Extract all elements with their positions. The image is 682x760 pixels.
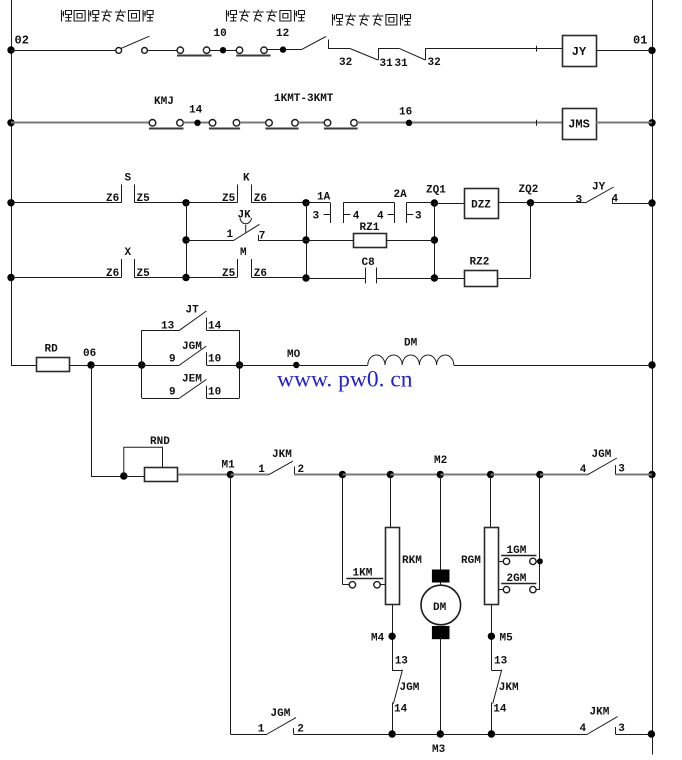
- inductor DM coil: [368, 355, 454, 365]
- wire 2GM to C5 column: [536, 589, 540, 591]
- node A3 junction dot: [182, 274, 189, 281]
- svg-text:M1: M1: [222, 460, 236, 472]
- svg-text:RND: RND: [150, 436, 170, 448]
- svg-text:JT: JT: [186, 305, 200, 317]
- svg-text:JKM: JKM: [590, 707, 610, 719]
- wire RZ2 to ZQ2 column: [497, 278, 531, 280]
- switch JK manual actuator arc: [240, 218, 252, 233]
- wire node A2 to JK: [186, 240, 234, 242]
- svg-text:DM: DM: [433, 602, 447, 614]
- wire K to node B: [252, 202, 306, 204]
- wire 06 column elbow: [91, 476, 124, 478]
- contact 1GM bridge bar: [501, 555, 536, 557]
- svg-text:9: 9: [169, 354, 176, 366]
- svg-text:www. pw0. cn: www. pw0. cn: [277, 367, 413, 393]
- wire node A column: [186, 203, 188, 278]
- svg-text:1KM: 1KM: [353, 568, 373, 580]
- wire JT branch left: [142, 330, 180, 332]
- wire DZZ to node ZQ2: [498, 202, 531, 204]
- wire M1 column elbow: [230, 734, 267, 736]
- svg-text:1: 1: [227, 229, 234, 241]
- label 机房安全回路 (machine-room safety circuit): [333, 14, 411, 26]
- contact S left plate: [121, 185, 123, 203]
- svg-text:1: 1: [258, 724, 265, 736]
- contact 2A right plate: [406, 203, 408, 223]
- wire row2 left segment: [11, 122, 149, 124]
- wire 1GM to C5 column: [536, 561, 540, 563]
- contact K31a blade: [350, 48, 378, 60]
- wire RND bypass: [124, 447, 163, 476]
- wire node A to contact K: [186, 202, 237, 204]
- terminal tick row2: [536, 120, 538, 126]
- resistor RND box: [145, 468, 178, 482]
- svg-text:16: 16: [399, 107, 412, 119]
- wire row4 left segment: [11, 277, 122, 279]
- contact pair KMT2 bridge bar: [265, 128, 298, 130]
- svg-text:06: 06: [83, 348, 96, 360]
- wire RGM to 2GM stub: [499, 589, 504, 591]
- svg-text:14: 14: [189, 105, 203, 117]
- contact 1GM left circle: [503, 558, 509, 564]
- contact JT terminal post: [206, 318, 208, 331]
- svg-text:13: 13: [494, 656, 508, 668]
- svg-text:DM: DM: [404, 338, 418, 350]
- svg-text:4: 4: [580, 723, 587, 735]
- svg-text:JY: JY: [592, 182, 606, 194]
- wire JEM branch left: [142, 398, 180, 400]
- switch JK blade: [234, 224, 260, 240]
- node dot right bus M1 row: [648, 471, 655, 478]
- wire row1 segment 4: [267, 49, 301, 51]
- node M1 dot: [227, 471, 234, 478]
- contact 2A terminal 4 stub: [388, 214, 395, 216]
- wire column C1 riser: [342, 475, 344, 585]
- rectifier DZZ box: [465, 189, 499, 219]
- node D1 junction dot: [388, 730, 395, 737]
- node branch-right junction dot: [236, 361, 243, 368]
- svg-text:KMJ: KMJ: [154, 96, 174, 108]
- svg-text:Z6: Z6: [106, 193, 119, 205]
- svg-text:14: 14: [394, 704, 408, 716]
- svg-text:10: 10: [208, 387, 221, 399]
- wire node ZQ1 column: [434, 203, 436, 278]
- wire JGM branch segments: [142, 365, 180, 367]
- wire RND lead left: [124, 476, 145, 478]
- svg-text:C8: C8: [362, 257, 376, 269]
- wire left bus to fuse RD: [11, 365, 37, 367]
- wire RKM to node M4: [392, 605, 394, 671]
- node M2 dot: [437, 471, 444, 478]
- wire JKM bottom to right bus: [615, 734, 651, 736]
- svg-text:4: 4: [377, 210, 384, 222]
- contact pair KMT2 left circle: [266, 120, 273, 127]
- wire S to node A: [134, 202, 186, 204]
- wire DM motor to bottom row: [440, 637, 442, 734]
- capacitor C8 left plate: [365, 268, 367, 284]
- node 12 dot: [280, 46, 286, 52]
- svg-text:3: 3: [415, 210, 422, 222]
- wire D3 to contact JKM bottom: [491, 734, 587, 736]
- wire row1 to JY coil: [425, 48, 562, 50]
- wire RD to node 06: [70, 365, 92, 367]
- contact X left plate: [121, 259, 123, 278]
- wire RZ1 to ZQ1 column: [386, 240, 434, 242]
- contact pair P1 bridge bar: [177, 55, 212, 57]
- svg-text:1: 1: [258, 464, 265, 476]
- svg-text:ZQ2: ZQ2: [519, 184, 539, 196]
- contact JY blade: [585, 187, 614, 203]
- node 10 dot: [220, 47, 226, 53]
- motor DM brush bottom: [432, 626, 450, 639]
- contact pair P1 right circle: [203, 47, 209, 53]
- node D3 junction dot: [488, 730, 495, 737]
- svg-text:M: M: [240, 247, 247, 259]
- svg-text:1KMT-3KMT: 1KMT-3KMT: [274, 93, 334, 105]
- contact pair KMT3 bridge bar: [324, 128, 358, 130]
- svg-text:9: 9: [169, 387, 176, 399]
- contact JEM terminal post: [206, 386, 208, 398]
- node dot right bus bottom row: [648, 730, 655, 737]
- wire node 06 to branch: [91, 365, 142, 367]
- wire JMS to right bus: [596, 122, 652, 124]
- wire DM coil to right bus: [454, 365, 652, 367]
- wire M2 column riser: [440, 475, 442, 586]
- contact pair P2 right circle: [261, 47, 267, 53]
- svg-text:3: 3: [618, 723, 625, 735]
- node C5-1GM junction dot: [537, 558, 543, 564]
- node dot left bus row2: [7, 119, 14, 126]
- svg-text:1GM: 1GM: [507, 545, 527, 557]
- contact JKM blade (M1 row): [269, 461, 293, 475]
- node ZQ1-2 junction dot: [431, 236, 438, 243]
- wire JKM column to bottom row: [491, 703, 493, 735]
- wire node B3 to C8: [306, 278, 366, 280]
- svg-text:M4: M4: [371, 633, 385, 645]
- contact 32-31 lead tick: [328, 40, 330, 49]
- node C1 junction dot: [339, 471, 346, 478]
- contact pair KMJ left circle: [149, 120, 156, 127]
- wire node A3 to contact M: [186, 277, 237, 279]
- svg-text:RGM: RGM: [461, 555, 481, 567]
- svg-text:RKM: RKM: [402, 555, 422, 567]
- contact pair P2 bridge bar: [236, 55, 270, 57]
- svg-text:4: 4: [353, 210, 360, 222]
- resistor RKM box: [386, 528, 400, 605]
- svg-text:MO: MO: [287, 349, 301, 361]
- contact 2A terminal 3 stub: [406, 214, 413, 216]
- wire RND to node M1: [178, 474, 231, 476]
- contact 1A right plate: [343, 203, 345, 223]
- node A junction dot: [182, 199, 189, 206]
- svg-text:X: X: [125, 247, 132, 259]
- svg-text:DZZ: DZZ: [471, 200, 491, 212]
- node dot right bus row2: [648, 119, 655, 126]
- svg-text:Z6: Z6: [254, 193, 267, 205]
- contact 2GM bridge bar: [501, 583, 536, 585]
- svg-text:2: 2: [297, 724, 304, 736]
- wire row2 segment 3: [240, 122, 266, 124]
- node dot right bus row3: [648, 199, 655, 206]
- contact K31b blade: [399, 48, 425, 60]
- node M4 dot: [388, 633, 395, 640]
- contact JGM blade (bottom): [267, 718, 296, 734]
- svg-text:JKM: JKM: [499, 682, 519, 694]
- contact K31b terminal post: [425, 48, 427, 60]
- node RND-left junction dot: [120, 472, 127, 479]
- svg-text:31: 31: [395, 58, 409, 70]
- contact 1A terminal 4 stub: [343, 214, 350, 216]
- contact JKM column blade: [493, 670, 502, 704]
- wire ZQ1 to DZZ: [434, 203, 464, 205]
- contact JT blade: [180, 311, 207, 330]
- node A2 junction dot: [182, 236, 189, 243]
- wire C4 to C5: [491, 474, 540, 476]
- contact 2GM left circle: [503, 586, 509, 592]
- wire right bus vertical: [652, 0, 654, 755]
- svg-text:Z5: Z5: [222, 268, 236, 280]
- svg-text:12: 12: [276, 28, 289, 40]
- wire RGM to node M5: [491, 605, 493, 671]
- wire node B to contact 1A: [306, 202, 330, 204]
- contact pair KMT3 right circle: [351, 120, 358, 127]
- svg-text:4: 4: [580, 464, 587, 476]
- wire 2A to node ZQ1: [406, 202, 434, 204]
- svg-text:Z5: Z5: [137, 193, 151, 205]
- svg-text:1A: 1A: [317, 191, 331, 203]
- wire C4 riser to RGM: [490, 475, 492, 528]
- node branch-left junction dot: [138, 361, 145, 368]
- svg-text:M2: M2: [434, 455, 447, 467]
- contact JKM column tick: [491, 670, 501, 672]
- wire C2 to M2: [390, 474, 440, 476]
- svg-text:S: S: [125, 173, 132, 185]
- switch S1 blade: [121, 36, 149, 48]
- contact 2GM right circle: [530, 586, 536, 592]
- wire JGM bottom to node D1: [294, 734, 393, 736]
- contact pair KMT1 bridge bar: [209, 128, 240, 130]
- wire C1 elbow to 1KM: [343, 584, 350, 586]
- wire row1 left segment: [11, 50, 116, 52]
- contact JKM blade (bottom): [588, 717, 618, 734]
- motor DM brush top: [432, 570, 450, 583]
- svg-text:13: 13: [161, 320, 175, 332]
- contact M right plate: [251, 259, 253, 278]
- svg-text:31: 31: [380, 58, 394, 70]
- contact 1KM bridge bar: [346, 578, 383, 580]
- wire JGM to right bus: [616, 474, 652, 476]
- svg-text:RD: RD: [45, 344, 59, 356]
- svg-text:JEM: JEM: [182, 374, 202, 386]
- svg-text:10: 10: [214, 28, 227, 40]
- wire contact chain segment b: [378, 48, 399, 50]
- contact JGM blade (M1 row right): [588, 458, 617, 475]
- wire JY contact to right bus: [612, 203, 652, 205]
- svg-text:JMS: JMS: [568, 118, 590, 132]
- wire JGM column to bottom row: [392, 703, 394, 735]
- node M5 dot: [488, 633, 495, 640]
- contact X right plate: [134, 259, 136, 278]
- contact JGM column blade: [393, 670, 402, 704]
- wire ZQ2 column: [530, 203, 532, 278]
- contact 1A left plate: [330, 203, 332, 223]
- contact JEM blade: [180, 379, 207, 398]
- svg-text:02: 02: [15, 34, 29, 48]
- svg-text:JK: JK: [238, 210, 252, 222]
- contact pair KMJ right circle: [177, 120, 184, 127]
- contact JGM terminal post: [206, 352, 208, 365]
- wire M2 to C4: [440, 474, 490, 476]
- svg-text:K: K: [243, 173, 250, 185]
- svg-text:2GM: 2GM: [507, 573, 527, 585]
- svg-text:RZ1: RZ1: [360, 222, 380, 234]
- svg-text:JKM: JKM: [272, 449, 292, 461]
- wire M to node B3: [252, 277, 306, 279]
- node dot right bus row5: [648, 361, 655, 368]
- svg-text:Z5: Z5: [222, 193, 236, 205]
- wire X to node A3: [134, 277, 186, 279]
- node 16 dot: [406, 120, 412, 126]
- wire row2 segment 4: [298, 122, 324, 124]
- contact M left plate: [237, 259, 239, 278]
- node 01 junction dot: [648, 47, 655, 54]
- wire row1 segment 2: [147, 50, 177, 52]
- svg-text:ZQ1: ZQ1: [426, 184, 446, 196]
- wire MO to inductor DM: [296, 365, 368, 367]
- relay coil JMS box: [563, 109, 597, 140]
- svg-text:RZ2: RZ2: [470, 256, 490, 268]
- svg-text:10: 10: [208, 354, 221, 366]
- node B junction dot: [302, 199, 309, 206]
- wire bridge 1A-2A: [343, 202, 394, 204]
- wire JKM to node C1: [294, 474, 343, 476]
- contact pair P1 left circle: [177, 47, 183, 53]
- wire D1 to node M3: [392, 734, 440, 736]
- svg-text:32: 32: [428, 57, 441, 69]
- contact JY terminal post: [612, 198, 614, 203]
- terminal tick row1: [536, 46, 538, 52]
- wire branch to node MO: [240, 365, 297, 367]
- contact S right plate: [134, 185, 136, 203]
- node C2 junction dot: [387, 471, 394, 478]
- wire node B column: [306, 203, 308, 278]
- wire row1 segment 3: [210, 50, 237, 52]
- resistor RGM box: [485, 528, 499, 605]
- contact 1KM right circle: [374, 582, 380, 588]
- wire row2 to JMS coil: [357, 122, 562, 124]
- wire left bus vertical: [11, 0, 13, 366]
- wire node B2 to RZ1: [306, 240, 354, 242]
- motor DM circle: [421, 585, 461, 625]
- wire JK to node B2: [258, 240, 306, 242]
- contact pair KMT1 left circle: [209, 120, 216, 127]
- switch S1 right contact circle: [142, 48, 148, 54]
- contact JGM terminal post (bottom): [293, 728, 295, 734]
- resistor RZ2 box: [465, 271, 498, 287]
- capacitor C8 right plate: [376, 268, 378, 284]
- wire branch right riser: [239, 330, 241, 398]
- label 轿厢侧安全回路 (car-side safety circuit): [62, 10, 154, 22]
- wire ZQ2 to JY contact: [531, 202, 586, 204]
- wire node 06 column: [91, 365, 93, 476]
- contact JKM terminal post (M1 row): [294, 467, 296, 475]
- wire row2 segment 2: [183, 122, 209, 124]
- node dot left bus row3: [7, 199, 14, 206]
- svg-text:JGM: JGM: [182, 341, 202, 353]
- svg-text:13: 13: [395, 656, 409, 668]
- switch S1 left contact circle: [116, 48, 122, 54]
- node B3 junction dot: [302, 274, 309, 281]
- resistor RZ1 box: [354, 234, 387, 248]
- svg-text:JGM: JGM: [592, 449, 612, 461]
- wire ZQ1-3 to RZ2: [434, 278, 464, 280]
- contact K left plate: [237, 185, 239, 203]
- fuse RD box: [37, 358, 70, 372]
- svg-text:01: 01: [633, 34, 647, 48]
- wire 1KM to RKM: [380, 584, 385, 586]
- wire C2 riser to RKM: [390, 475, 392, 528]
- svg-text:Z6: Z6: [106, 268, 119, 280]
- svg-text:3: 3: [576, 194, 583, 206]
- wire row3 left segment: [11, 202, 122, 204]
- label 井道安全回路 (hoistway safety circuit): [227, 10, 305, 22]
- contact pair KMT2 right circle: [292, 120, 299, 127]
- node ZQ1-3 junction dot: [431, 274, 438, 281]
- node 14 dot: [194, 120, 200, 126]
- contact pair KMT1 right circle: [233, 120, 240, 127]
- wire C1 to C2: [343, 474, 391, 476]
- svg-text:32: 32: [339, 57, 352, 69]
- svg-text:JY: JY: [572, 45, 587, 59]
- wire contact chain segment a: [328, 48, 350, 50]
- switch JK terminal post: [258, 235, 260, 240]
- node B2 junction dot: [302, 236, 309, 243]
- relay coil JY box: [563, 36, 597, 67]
- wire JEM branch right: [206, 398, 239, 400]
- contact 1KM left circle: [349, 582, 355, 588]
- wire RGM to 1GM stub: [499, 561, 504, 563]
- wire M1 to contact JKM: [230, 474, 268, 476]
- contact K31a terminal post: [378, 48, 380, 60]
- node 06 junction dot: [87, 361, 94, 368]
- contact K right plate: [251, 185, 253, 203]
- node C4 junction dot: [487, 471, 494, 478]
- contact 1A terminal 3 stub: [324, 214, 331, 216]
- node ZQ2 junction dot: [527, 199, 534, 206]
- wire branch left riser: [141, 330, 143, 398]
- contact pair KMJ bridge bar: [149, 128, 184, 130]
- node M3 junction dot: [437, 730, 444, 737]
- contact JGM column tick: [392, 670, 402, 672]
- svg-text:JGM: JGM: [271, 708, 291, 720]
- wire JT branch right: [206, 330, 239, 332]
- node dot left bus row4: [7, 274, 14, 281]
- wire JY to node 01: [596, 50, 652, 52]
- wire C5 column riser: [539, 475, 541, 590]
- contact pair KMT3 left circle: [324, 120, 331, 127]
- wire M3 to node D3: [440, 734, 491, 736]
- wire C8 to ZQ1 column: [376, 278, 434, 280]
- svg-text:M5: M5: [500, 633, 514, 645]
- contact 1GM right circle: [530, 558, 536, 564]
- node MO dot: [293, 362, 299, 368]
- contact JGM blade: [180, 346, 207, 365]
- node C5 junction dot: [536, 471, 543, 478]
- svg-text:M3: M3: [432, 744, 446, 756]
- node 02 junction dot: [7, 46, 14, 53]
- svg-text:3: 3: [313, 210, 320, 222]
- contact 2A left plate: [394, 203, 396, 223]
- contact JGM terminal post (right): [615, 465, 617, 475]
